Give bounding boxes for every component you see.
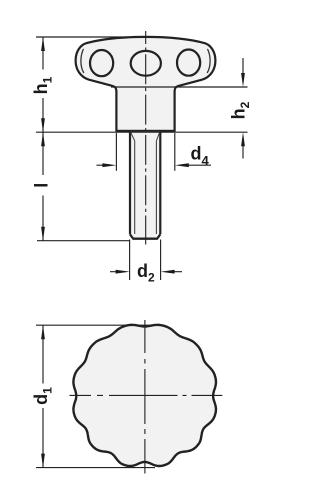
extension line hub left bbox=[115, 133, 117, 171]
arrow h2 top bbox=[241, 73, 245, 87]
svg-text:l: l bbox=[32, 183, 52, 188]
right wing hole bbox=[177, 50, 200, 76]
arrow d2 right bbox=[161, 270, 175, 274]
extension line stud right bbox=[160, 240, 162, 281]
arrow l top bbox=[41, 132, 45, 146]
hub neck bottom edge bbox=[116, 130, 174, 132]
arrow h2 bottom bbox=[241, 132, 245, 146]
arrow d1 bottom bbox=[41, 454, 45, 468]
dimension line d1 bbox=[42, 325, 44, 467]
vertical centerline bottom view bbox=[144, 320, 146, 474]
stud bottom face bbox=[133, 238, 158, 240]
extension line knob bottom bbox=[36, 467, 155, 469]
right tip edge arc bbox=[207, 49, 210, 72]
vertical centerline upper view bbox=[145, 31, 147, 245]
arrow h1 top bbox=[41, 37, 45, 51]
left tip edge arc bbox=[81, 49, 84, 72]
arrow d4 left bbox=[102, 163, 116, 167]
dimension line d4 tails bbox=[97, 164, 212, 166]
stud bottom chamfer bbox=[130, 234, 160, 238]
extension line head top bbox=[36, 36, 130, 38]
lobed knob outline bottom view bbox=[73, 325, 216, 466]
threaded stud body fill bbox=[130, 132, 160, 239]
svg-text:d1: d1 bbox=[31, 387, 55, 405]
dimension line h1 bbox=[42, 37, 44, 132]
arrow d2 left bbox=[116, 270, 130, 274]
extension line stud left bbox=[129, 240, 131, 281]
arrow d1 top bbox=[41, 325, 45, 339]
svg-text:d2: d2 bbox=[137, 261, 155, 285]
thread root line left bbox=[134, 141, 136, 234]
extension line wing underside bbox=[111, 86, 248, 88]
horizontal centerline bottom view bbox=[70, 394, 223, 396]
dimension line d2 tails bbox=[110, 271, 182, 273]
svg-text:h1: h1 bbox=[31, 76, 55, 94]
left wing hole bbox=[90, 50, 113, 76]
thread run-out chamfer right bbox=[156, 132, 159, 140]
stud outer edge left bbox=[129, 132, 131, 235]
thread root line right bbox=[155, 141, 157, 234]
extension line knob top bbox=[36, 324, 152, 326]
thread run-out chamfer left bbox=[131, 132, 135, 140]
arrow h1 bottom bbox=[41, 118, 45, 132]
wing knob head outline bbox=[76, 37, 216, 131]
dimension line h2 tails bbox=[242, 58, 244, 159]
extension line stud bottom bbox=[37, 240, 130, 242]
center hole bbox=[131, 51, 161, 76]
svg-text:h2: h2 bbox=[229, 101, 253, 119]
svg-text:d4: d4 bbox=[191, 143, 210, 168]
arrow l bottom bbox=[41, 227, 45, 241]
dimension line l bbox=[42, 132, 44, 241]
extension line hub right bbox=[174, 133, 176, 171]
stud outer edge right bbox=[159, 132, 161, 235]
extension line neck bottom bbox=[36, 131, 248, 133]
arrow d4 right bbox=[175, 163, 189, 167]
